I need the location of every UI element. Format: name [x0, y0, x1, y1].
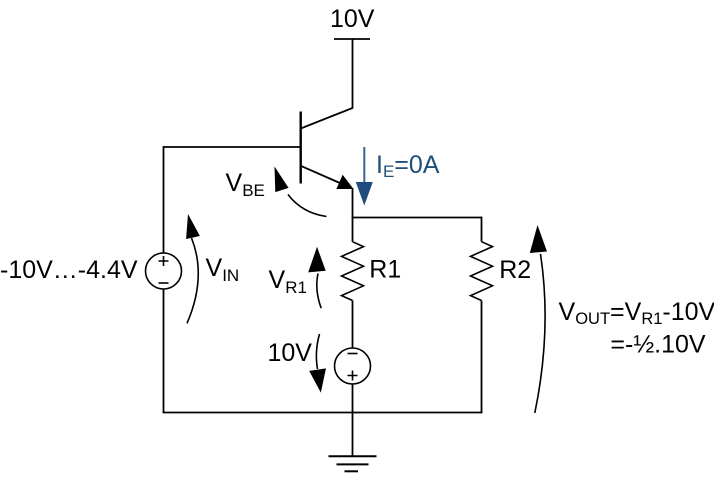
wire base	[164, 146, 301, 148]
arrow 10V arc	[316, 334, 319, 369]
wire VCC to collector	[301, 39, 353, 129]
voltage source V2 circle	[335, 348, 371, 384]
voltage source V1 circle	[146, 253, 182, 289]
arrow VBE head	[275, 167, 289, 193]
svg-text:R2: R2	[499, 256, 531, 284]
transistor Q1 base bar	[300, 112, 302, 184]
wire node to R1	[352, 218, 354, 242]
arrow VIN arc	[187, 238, 198, 323]
resistor R1	[342, 242, 364, 301]
arrow IE head (blue)	[356, 182, 373, 206]
voltage source V1 plus	[159, 256, 169, 266]
wire emitter node	[352, 188, 354, 218]
resistor R2	[471, 242, 493, 301]
voltage source V1 minus	[159, 282, 169, 284]
power rail VCC	[334, 38, 370, 40]
wire V2 to ground	[352, 384, 354, 456]
arrow VIN head	[186, 214, 200, 239]
wire node to R2	[352, 217, 482, 219]
transistor Q1 emitter	[301, 166, 341, 184]
svg-text:R1: R1	[369, 256, 401, 284]
transistor Q1 emitter arrowhead	[337, 176, 352, 189]
arrow VBE arc	[288, 195, 327, 217]
wire bottom	[163, 412, 483, 414]
arrow 10V head	[309, 368, 326, 392]
arrow VOUT arc	[535, 254, 545, 413]
svg-text:10V: 10V	[268, 339, 313, 367]
arrow IE line (blue)	[363, 147, 365, 183]
svg-text:=-½.10V: =-½.10V	[610, 331, 706, 359]
wire left branch upper	[163, 146, 165, 253]
voltage source V2 minus	[348, 353, 358, 355]
wire R2 top	[481, 217, 483, 242]
wire left branch lower	[163, 289, 165, 413]
arrow VR1 arc	[317, 274, 321, 309]
arrow VR1 head	[308, 247, 326, 273]
svg-text:-10V…-4.4V: -10V…-4.4V	[0, 256, 138, 284]
svg-text:10V: 10V	[330, 5, 375, 33]
wire R1 to V2	[352, 301, 354, 349]
voltage source V2 plus	[348, 371, 358, 381]
wire R2 bottom	[481, 301, 483, 413]
ground	[329, 456, 377, 471]
arrow VOUT head	[530, 225, 547, 253]
